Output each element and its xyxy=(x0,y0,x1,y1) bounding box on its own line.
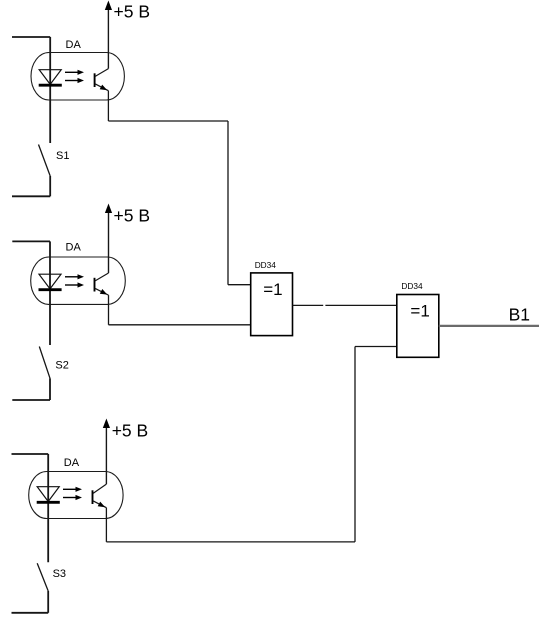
svg-text:+5 B: +5 B xyxy=(114,2,151,22)
svg-text:S2: S2 xyxy=(55,360,68,372)
svg-text:=1: =1 xyxy=(263,280,282,299)
svg-text:+5 B: +5 B xyxy=(112,421,149,441)
svg-text:DD34: DD34 xyxy=(255,260,277,270)
svg-text:DA: DA xyxy=(64,457,80,469)
svg-text:S3: S3 xyxy=(53,568,66,580)
svg-text:+5 B: +5 B xyxy=(114,205,151,225)
svg-text:DA: DA xyxy=(66,241,82,253)
svg-text:S1: S1 xyxy=(56,150,69,162)
svg-text:DD34: DD34 xyxy=(401,281,423,291)
svg-text:DA: DA xyxy=(66,39,82,51)
svg-text:B1: B1 xyxy=(509,305,530,325)
svg-text:=1: =1 xyxy=(410,301,429,320)
